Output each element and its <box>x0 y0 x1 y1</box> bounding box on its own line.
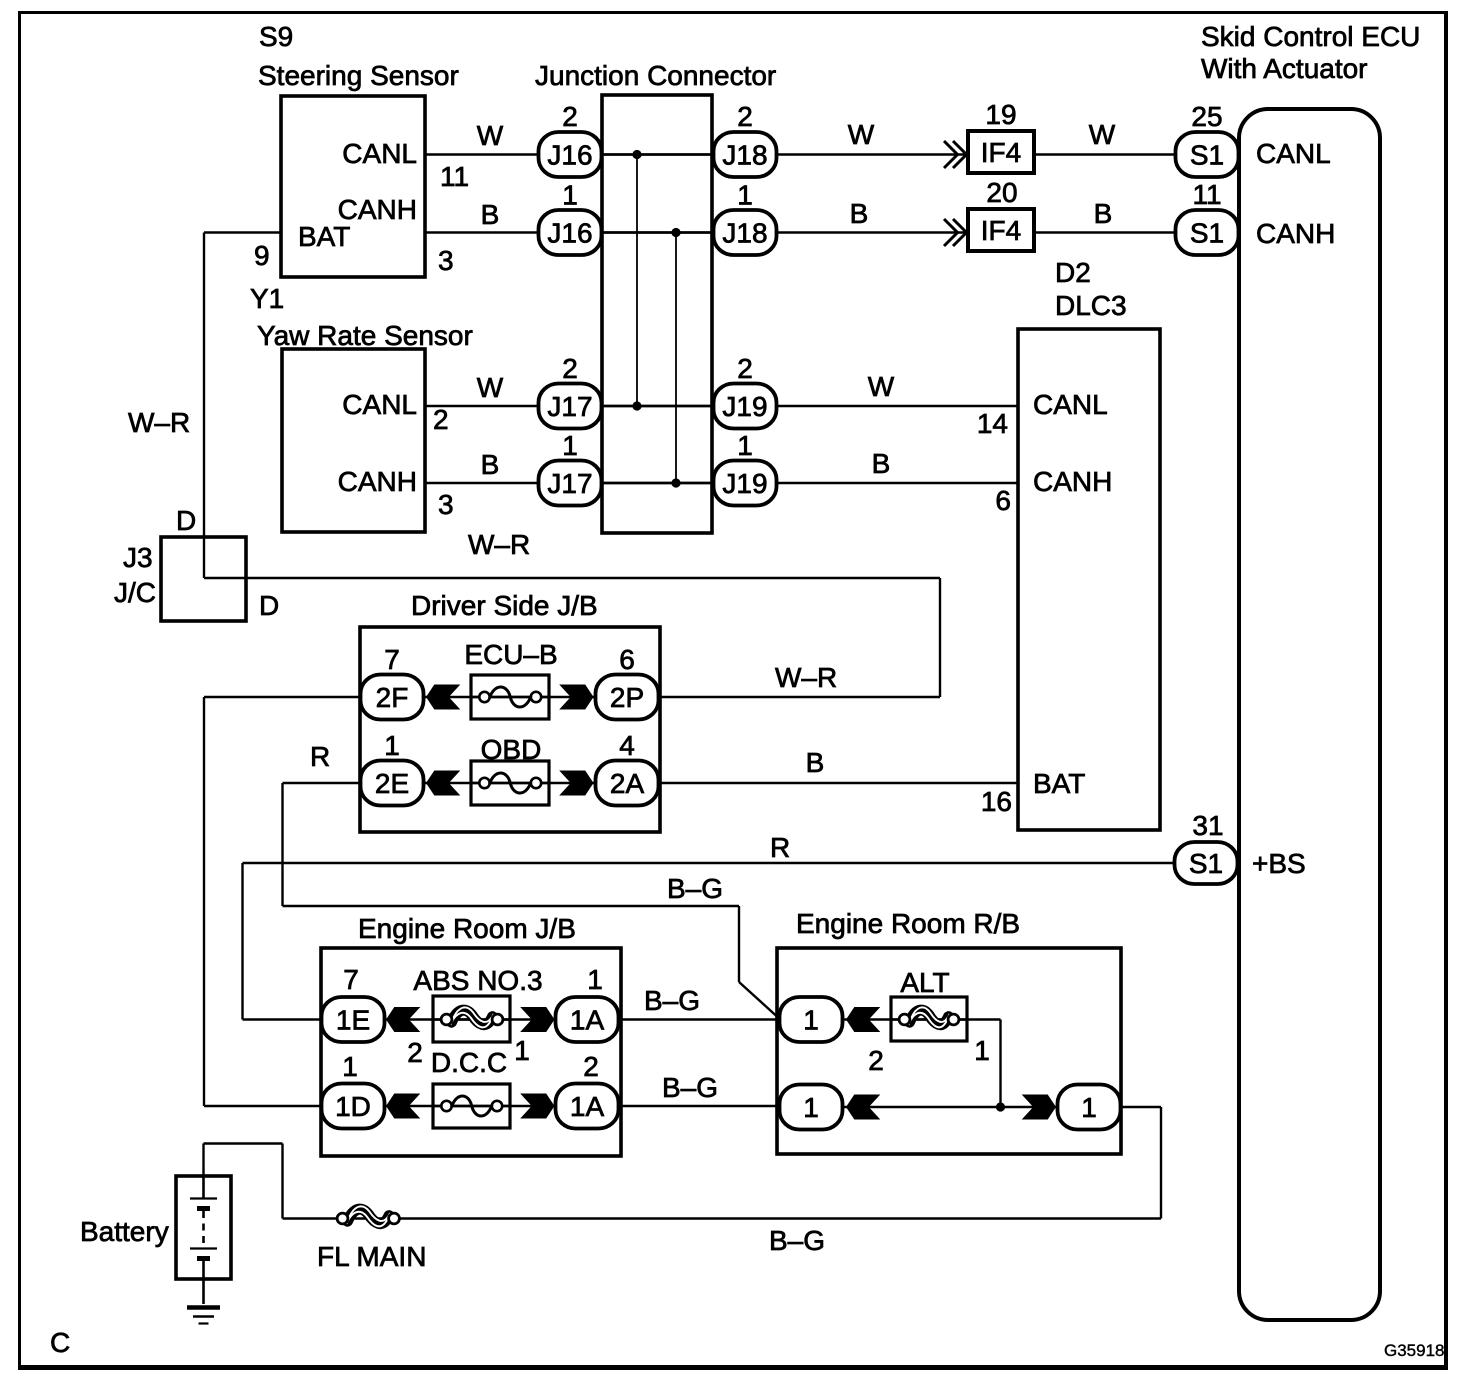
svg-text:R: R <box>310 741 330 772</box>
svg-text:6: 6 <box>619 644 635 675</box>
svg-text:2: 2 <box>562 101 578 132</box>
svg-text:W–R: W–R <box>775 662 837 693</box>
svg-text:ALT: ALT <box>900 967 949 998</box>
svg-text:B: B <box>1094 198 1113 229</box>
svg-text:2: 2 <box>433 404 449 435</box>
svg-text:W: W <box>848 119 875 150</box>
svg-text:CANL: CANL <box>1256 138 1331 169</box>
svg-text:1: 1 <box>587 964 603 995</box>
svg-text:J17: J17 <box>547 391 592 422</box>
svg-text:C: C <box>50 1327 70 1358</box>
svg-text:W: W <box>477 120 504 151</box>
svg-text:2F: 2F <box>376 682 409 713</box>
svg-text:J19: J19 <box>722 391 767 422</box>
svg-text:IF4: IF4 <box>981 137 1021 168</box>
svg-text:1: 1 <box>562 430 578 461</box>
svg-text:B–G: B–G <box>662 1072 718 1103</box>
svg-text:D2: D2 <box>1055 257 1091 288</box>
svg-text:7: 7 <box>343 964 359 995</box>
svg-text:W–R: W–R <box>128 407 190 438</box>
svg-text:J16: J16 <box>547 140 592 171</box>
svg-text:J19: J19 <box>722 468 767 499</box>
svg-text:BAT: BAT <box>298 221 350 252</box>
svg-text:B: B <box>850 198 869 229</box>
svg-text:CANL: CANL <box>1033 389 1108 420</box>
svg-text:19: 19 <box>985 99 1016 130</box>
svg-text:R: R <box>770 832 790 863</box>
svg-text:ECU–B: ECU–B <box>464 639 557 670</box>
svg-text:2: 2 <box>583 1051 599 1082</box>
svg-text:Y1: Y1 <box>250 283 284 314</box>
svg-text:2: 2 <box>737 353 753 384</box>
svg-text:31: 31 <box>1192 810 1223 841</box>
svg-text:1A: 1A <box>570 1005 605 1036</box>
svg-text:S1: S1 <box>1190 218 1224 249</box>
svg-text:J18: J18 <box>722 218 767 249</box>
svg-text:J17: J17 <box>547 468 592 499</box>
svg-text:B: B <box>872 448 891 479</box>
svg-text:4: 4 <box>619 730 635 761</box>
svg-text:Junction Connector: Junction Connector <box>535 60 776 91</box>
svg-text:2: 2 <box>868 1045 884 1076</box>
svg-text:2: 2 <box>737 101 753 132</box>
svg-text:2: 2 <box>562 353 578 384</box>
svg-text:OBD: OBD <box>481 734 542 765</box>
svg-text:2P: 2P <box>610 682 644 713</box>
svg-text:J16: J16 <box>547 218 592 249</box>
svg-text:D: D <box>259 590 279 621</box>
svg-text:G35918: G35918 <box>1384 1341 1445 1360</box>
svg-text:D: D <box>176 505 196 536</box>
svg-text:20: 20 <box>986 177 1017 208</box>
svg-text:Skid Control ECU: Skid Control ECU <box>1201 21 1420 52</box>
svg-text:1: 1 <box>737 430 753 461</box>
svg-text:3: 3 <box>438 489 454 520</box>
svg-text:J/C: J/C <box>114 577 156 608</box>
svg-text:B–G: B–G <box>667 873 723 904</box>
svg-text:Engine Room R/B: Engine Room R/B <box>796 908 1020 939</box>
svg-text:1: 1 <box>803 1005 819 1036</box>
svg-text:Battery: Battery <box>80 1216 169 1247</box>
svg-text:D.C.C: D.C.C <box>431 1047 507 1078</box>
svg-text:9: 9 <box>254 240 270 271</box>
svg-text:CANH: CANH <box>1256 218 1335 249</box>
svg-text:W–R: W–R <box>468 529 530 560</box>
svg-text:DLC3: DLC3 <box>1055 290 1127 321</box>
svg-text:ABS NO.3: ABS NO.3 <box>413 965 542 996</box>
svg-text:16: 16 <box>981 786 1012 817</box>
svg-text:11: 11 <box>1192 179 1221 210</box>
svg-text:14: 14 <box>977 408 1008 439</box>
svg-text:Driver Side J/B: Driver Side J/B <box>411 590 598 621</box>
svg-text:2E: 2E <box>375 768 409 799</box>
svg-text:W: W <box>477 372 504 403</box>
svg-text:W: W <box>1089 119 1116 150</box>
svg-text:1: 1 <box>562 180 578 211</box>
svg-text:CANL: CANL <box>342 138 417 169</box>
svg-text:B: B <box>481 449 500 480</box>
svg-text:Yaw Rate Sensor: Yaw Rate Sensor <box>257 320 473 351</box>
svg-text:1: 1 <box>803 1092 819 1123</box>
svg-text:1: 1 <box>737 180 753 211</box>
svg-text:2: 2 <box>407 1037 423 1068</box>
svg-text:J3: J3 <box>123 542 153 573</box>
svg-text:1: 1 <box>514 1035 530 1066</box>
svg-text:7: 7 <box>384 644 400 675</box>
svg-text:CANH: CANH <box>338 466 417 497</box>
svg-text:J18: J18 <box>722 140 767 171</box>
svg-text:S1: S1 <box>1190 140 1224 171</box>
svg-text:Engine Room J/B: Engine Room J/B <box>358 913 576 944</box>
svg-text:1: 1 <box>974 1035 990 1066</box>
svg-text:B–G: B–G <box>769 1225 825 1256</box>
svg-text:1: 1 <box>342 1051 358 1082</box>
svg-text:IF4: IF4 <box>981 215 1021 246</box>
svg-text:CANH: CANH <box>1033 466 1112 497</box>
svg-text:B: B <box>481 199 500 230</box>
svg-text:BAT: BAT <box>1033 768 1085 799</box>
svg-text:+BS: +BS <box>1252 848 1306 879</box>
svg-text:6: 6 <box>995 485 1011 516</box>
svg-text:1A: 1A <box>570 1091 605 1122</box>
svg-text:1: 1 <box>384 730 400 761</box>
svg-text:2A: 2A <box>610 768 645 799</box>
svg-text:W: W <box>868 371 895 402</box>
svg-text:With Actuator: With Actuator <box>1201 53 1368 84</box>
svg-text:25: 25 <box>1191 101 1222 132</box>
svg-text:3: 3 <box>438 245 454 276</box>
svg-text:B–G: B–G <box>644 985 700 1016</box>
svg-text:CANL: CANL <box>342 389 417 420</box>
svg-text:1D: 1D <box>335 1091 371 1122</box>
svg-text:FL MAIN: FL MAIN <box>317 1241 426 1272</box>
svg-text:Steering Sensor: Steering Sensor <box>258 60 459 91</box>
svg-text:B: B <box>806 747 825 778</box>
svg-text:11: 11 <box>440 161 469 192</box>
svg-text:S1: S1 <box>1189 848 1223 879</box>
svg-text:1E: 1E <box>336 1005 370 1036</box>
svg-text:S9: S9 <box>259 21 293 52</box>
svg-text:1: 1 <box>1081 1092 1097 1123</box>
